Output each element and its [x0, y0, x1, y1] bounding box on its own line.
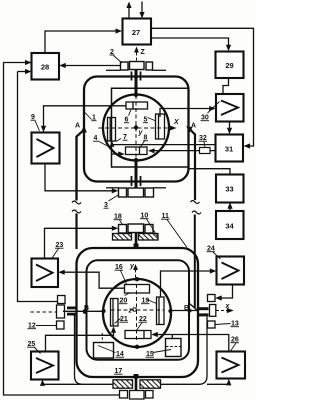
svg-text:z: z [128, 308, 133, 315]
svg-text:28: 28 [41, 63, 49, 72]
svg-text:34: 34 [225, 222, 234, 231]
svg-text:B: B [184, 305, 189, 312]
svg-text:A: A [191, 123, 196, 130]
svg-text:B: B [84, 305, 89, 312]
svg-text:Z: Z [141, 49, 146, 56]
svg-text:A: A [75, 123, 80, 130]
svg-text:29: 29 [225, 61, 233, 70]
svg-text:27: 27 [132, 28, 140, 37]
svg-text:33: 33 [225, 185, 233, 194]
svg-text:31: 31 [225, 145, 233, 154]
